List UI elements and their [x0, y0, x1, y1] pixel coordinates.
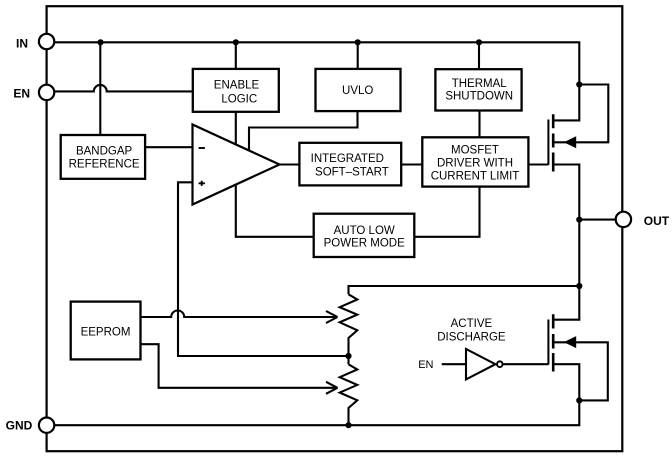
box AUTO LOW POWER MODE: [314, 214, 415, 257]
resistor R1 top (zigzag): [340, 294, 358, 364]
box UVLO: [316, 69, 401, 111]
box EEPROM: [71, 302, 141, 360]
svg-text:DRIVER WITH: DRIVER WITH: [437, 158, 513, 170]
svg-text:ACTIVE: ACTIVE: [451, 318, 493, 330]
wire enable logic to auto low power mode (passes under op-amp): [236, 112, 314, 237]
wire inverter to NMOS gate: [503, 363, 548, 365]
svg-text:UVLO: UVLO: [342, 85, 373, 97]
wire mosfet driver to auto low power mode: [414, 187, 479, 237]
svg-text:GND: GND: [6, 419, 33, 433]
box MOSFET DRIVER WITH CURRENT LIMIT: [422, 137, 528, 186]
wire PMOS source down to NMOS drain: [553, 165, 579, 320]
wire UVLO to op-amp: [249, 111, 358, 152]
box BANDGAP REFERENCE: [61, 135, 145, 179]
inverter U2 (EN): [466, 349, 503, 379]
transistor Q2 NMOS active discharge: [548, 314, 576, 371]
wire EEPROM to top resistor wiper (with hop): [141, 311, 338, 323]
svg-text:AUTO LOW: AUTO LOW: [334, 225, 395, 237]
svg-text:MOSFET: MOSFET: [451, 144, 499, 156]
svg-text:OUT: OUT: [644, 214, 670, 228]
wire IN to bandgap: [99, 42, 101, 135]
junction dot rail-enable: [233, 39, 239, 45]
wire PMOS body tie loop: [553, 85, 608, 143]
svg-text:EN: EN: [13, 87, 30, 101]
pin IN: [16, 34, 54, 51]
svg-text:INTEGRATED: INTEGRATED: [311, 153, 384, 165]
wire EEPROM to bottom resistor wiper: [141, 344, 338, 394]
op-amp U1: [193, 125, 280, 205]
pin OUT: [616, 212, 670, 228]
svg-text:EEPROM: EEPROM: [81, 327, 131, 339]
wire op-amp output to integrated soft-start: [280, 163, 300, 165]
junction dot rail-thermal: [476, 39, 482, 45]
transistor Q1 PMOS pass device: [548, 114, 576, 171]
wire EN to inverter: [442, 363, 467, 365]
junction dot OUT tap: [576, 217, 582, 223]
wire IN to UVLO: [357, 42, 359, 69]
wire IN rail: [54, 42, 579, 120]
svg-text:DISCHARGE: DISCHARGE: [437, 332, 506, 344]
svg-text:IN: IN: [16, 36, 28, 50]
svg-text:ENABLE: ENABLE: [214, 79, 260, 91]
svg-text:SHUTDOWN: SHUTDOWN: [445, 90, 513, 102]
svg-text:LOGIC: LOGIC: [221, 93, 257, 105]
junction dot PMOS body: [576, 81, 582, 87]
wire GND rail / NMOS source: [54, 364, 579, 425]
wire IN to thermal shutdown: [478, 42, 480, 69]
wire thermal shutdown to mosfet driver: [478, 111, 480, 138]
svg-text:REFERENCE: REFERENCE: [69, 159, 140, 171]
box THERMAL SHUTDOWN: [435, 69, 521, 110]
wire output to resistor divider top: [349, 286, 580, 294]
svg-text:SOFT–START: SOFT–START: [315, 167, 389, 179]
junction dot divider midpoint: [345, 353, 351, 359]
wire OUT tap: [579, 219, 616, 221]
svg-text:CURRENT LIMIT: CURRENT LIMIT: [431, 171, 520, 183]
wire EN rail with hop: [54, 85, 193, 91]
wire bandgap to op-amp minus input: [145, 146, 192, 148]
label ACTIVE DISCHARGE: [437, 318, 506, 344]
wire mosfet driver to PMOS gate: [528, 163, 548, 165]
junction dot R2 to GND rail: [345, 422, 351, 428]
junction dot rail-uvlo: [355, 39, 361, 45]
wire soft-start to mosfet driver: [401, 163, 422, 165]
junction dot rail-bandgap: [97, 39, 103, 45]
box ENABLE LOGIC: [193, 69, 279, 112]
wire NMOS body tie loop: [553, 342, 608, 400]
pin GND: [6, 418, 55, 433]
box INTEGRATED SOFT-START: [299, 143, 401, 186]
junction dot resistor top tap: [576, 283, 582, 289]
wire op-amp plus input feedback: [178, 182, 349, 356]
label EN at inverter: [418, 359, 433, 371]
svg-text:BANDGAP: BANDGAP: [76, 145, 133, 157]
pin EN: [13, 85, 54, 101]
svg-text:THERMAL: THERMAL: [452, 78, 508, 90]
junction dot NMOS body-source: [576, 397, 582, 403]
resistor R2 bottom (zigzag): [340, 364, 358, 425]
svg-text:POWER MODE: POWER MODE: [324, 237, 405, 249]
svg-text:EN: EN: [418, 359, 433, 371]
wire IN to enable logic: [235, 42, 237, 69]
